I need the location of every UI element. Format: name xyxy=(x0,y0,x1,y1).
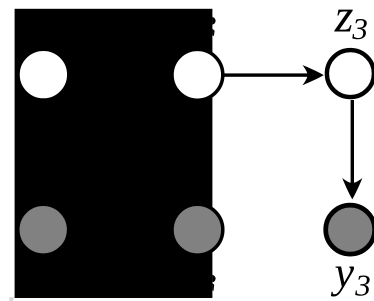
node y2 (gray circle, half off plate) xyxy=(172,204,223,255)
node y3 (gray circle, bold outline) xyxy=(326,205,374,254)
wire: arrow shaft z2 to z3 xyxy=(224,73,313,76)
node z1 (white circle on plate) xyxy=(18,49,69,100)
faint mark at bottom-left below plate xyxy=(9,297,14,301)
label y2 sliver: lower stroke of subscript 2 xyxy=(212,283,214,291)
node z3 (white circle, bold outline) xyxy=(327,50,374,97)
node y1 (gray circle on plate) xyxy=(18,204,69,255)
svg-text:3: 3 xyxy=(351,11,368,46)
black plate rectangle (occluder) xyxy=(15,9,213,298)
arrowhead z2 to z3 xyxy=(302,65,323,85)
label z2 sliver: lower stroke of subscript 2 xyxy=(212,29,214,36)
wire: arrow shaft z3 to y3 xyxy=(351,100,354,188)
svg-text:y: y xyxy=(331,248,355,297)
label y2 sliver: top bump of subscript 2 poking past plate edge xyxy=(212,275,215,283)
label z2 sliver: top bump of subscript 2 poking past plate edge xyxy=(212,17,215,25)
svg-text:3: 3 xyxy=(354,268,371,301)
node z2 (white circle, half off plate) xyxy=(172,49,223,100)
svg-text:z: z xyxy=(334,0,354,43)
arrowhead z3 to y3 xyxy=(342,178,362,199)
